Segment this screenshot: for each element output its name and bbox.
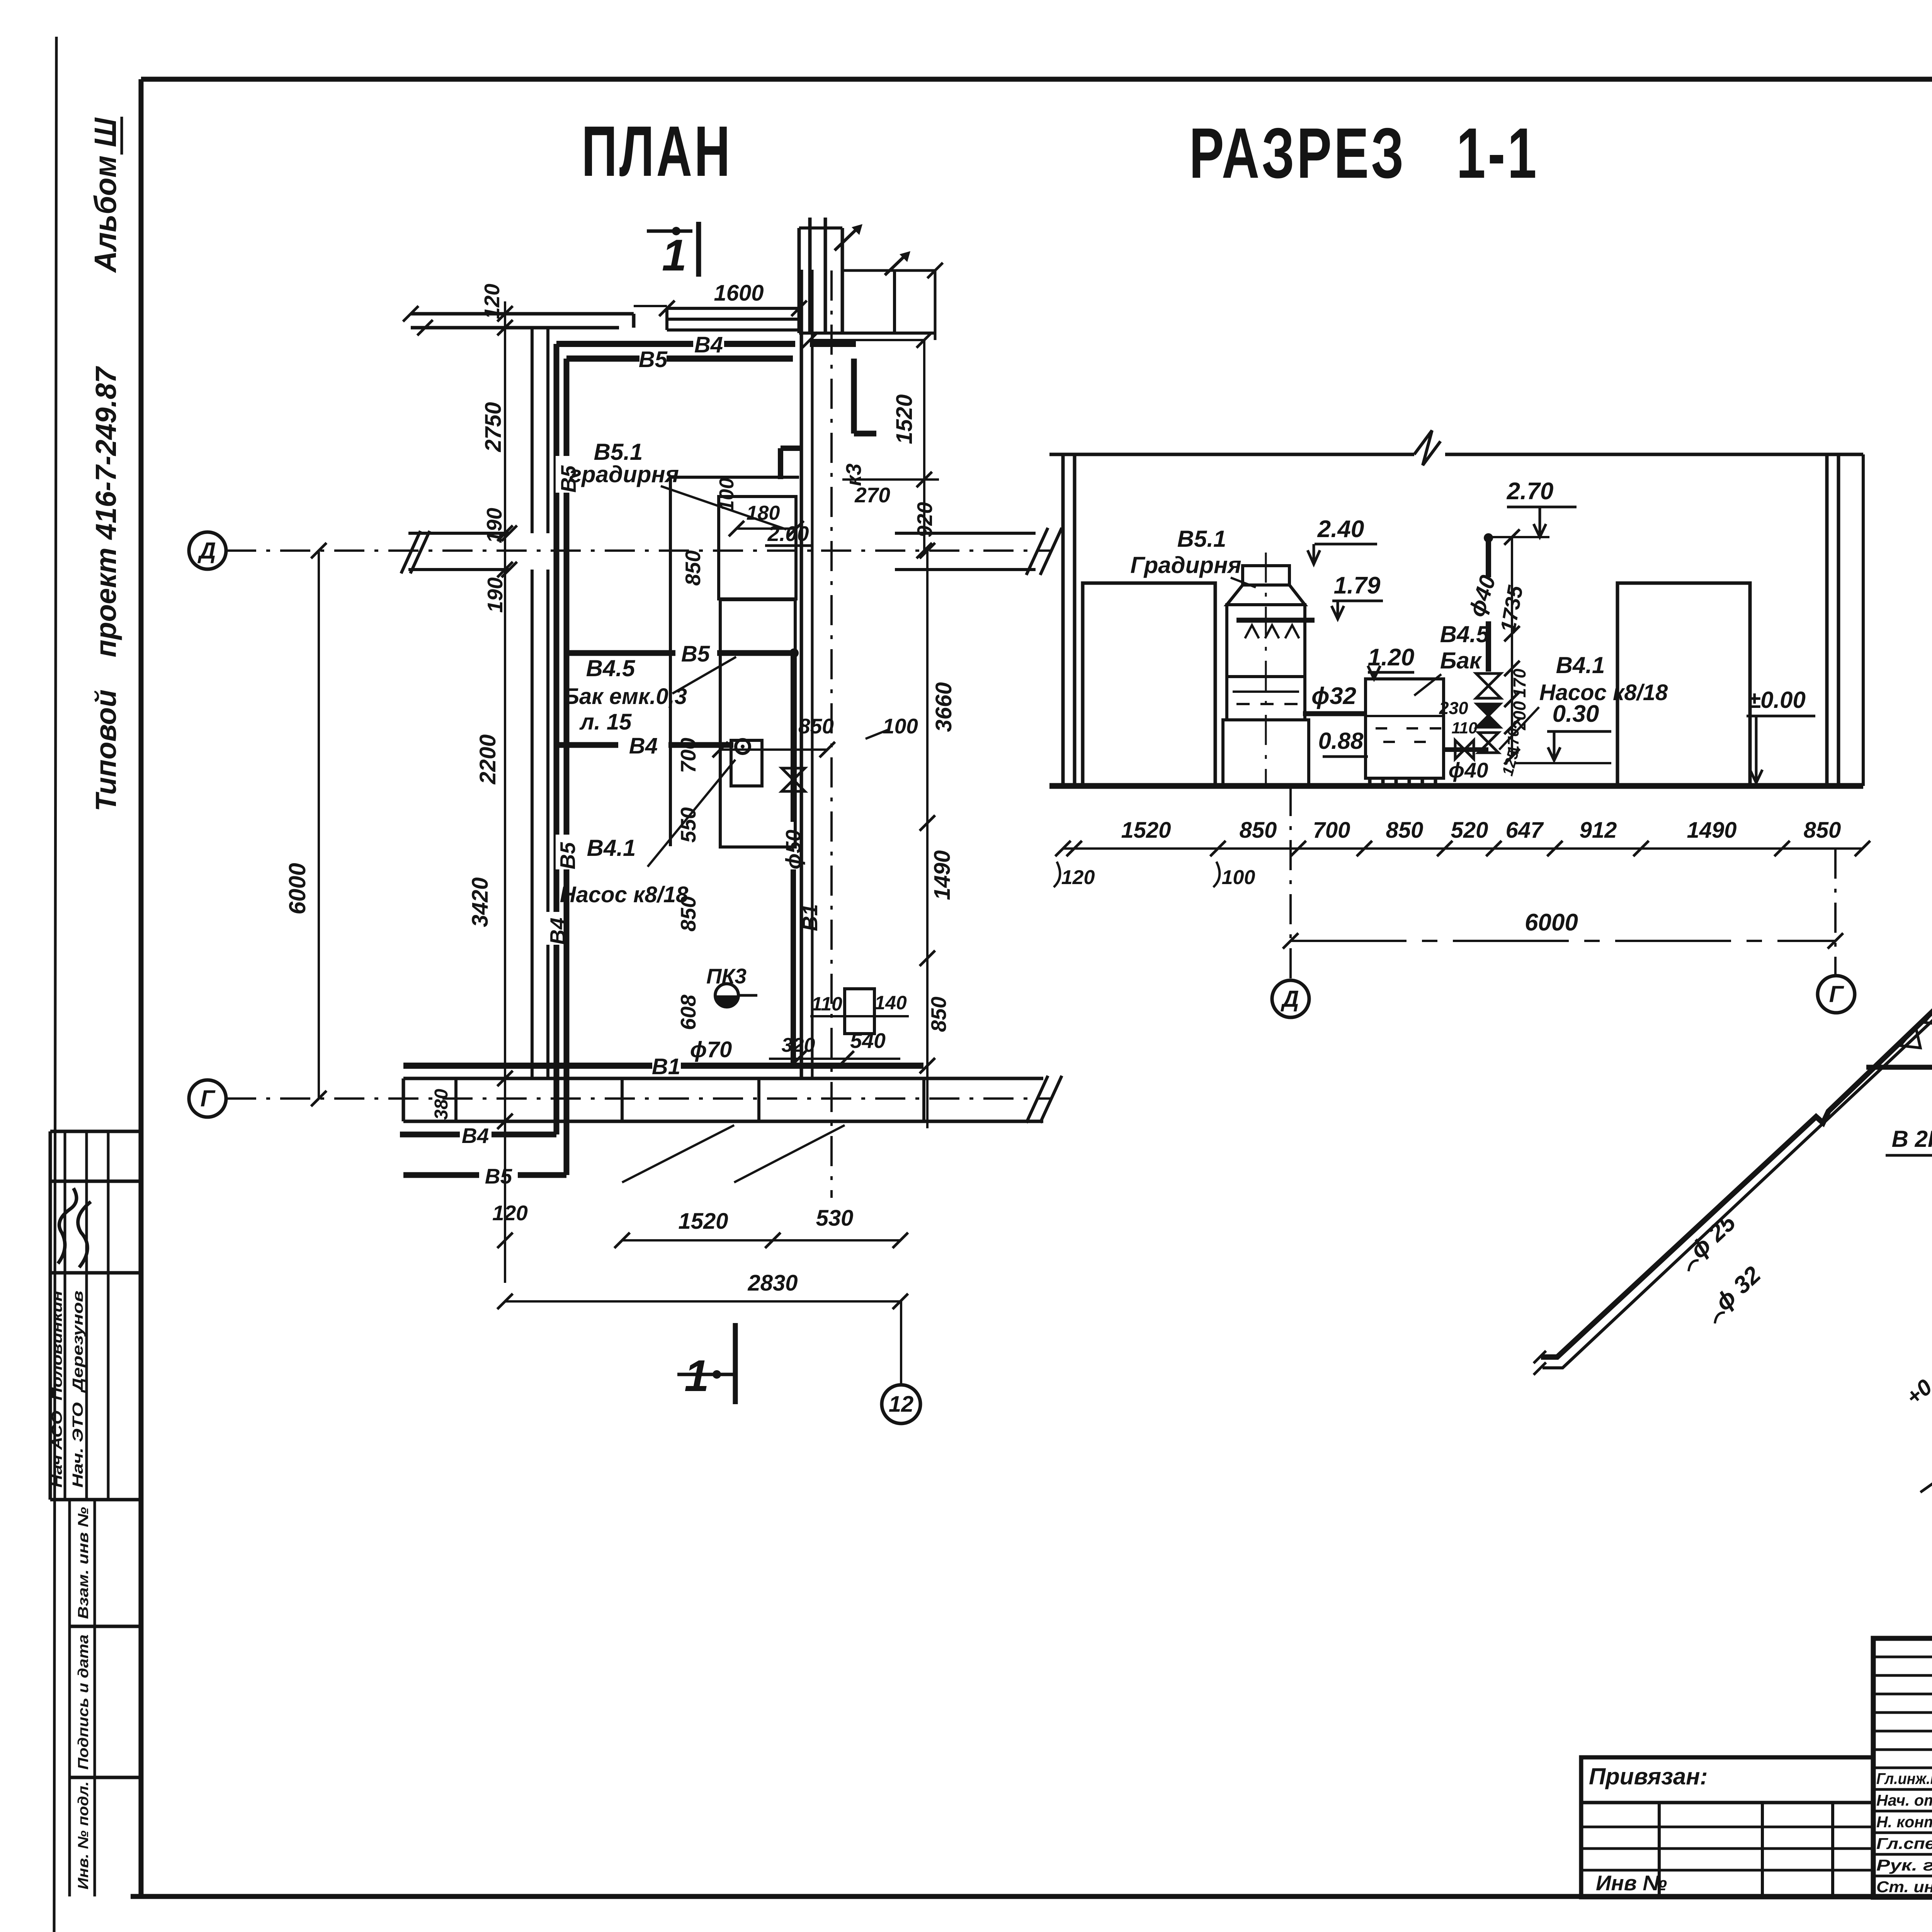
axis marker Г (section) xyxy=(1818,976,1855,1013)
column block top-right (plan) xyxy=(798,228,801,333)
svg-text:270: 270 xyxy=(854,483,890,507)
section left wall xyxy=(1061,454,1065,786)
pipe В5 mid branch (plan) xyxy=(566,650,675,656)
axis Г stem (section) xyxy=(1834,849,1837,976)
dimension line 2830 xyxy=(505,1300,900,1303)
bottom wall band (plan) xyxy=(403,1077,1043,1080)
svg-text:Инв. № подл.: Инв. № подл. xyxy=(75,1781,92,1889)
section floor line xyxy=(1049,783,1863,789)
svg-text:В4: В4 xyxy=(462,1124,489,1148)
label В5 on riser upper (rotated) xyxy=(556,456,578,493)
svg-text:В4.1: В4.1 xyxy=(587,835,636,861)
pipe В4 top horizontal (plan) xyxy=(556,341,693,347)
svg-text:Д: Д xyxy=(1280,986,1299,1012)
title block outer frame xyxy=(1873,1638,1932,1897)
svg-text:170: 170 xyxy=(1510,668,1529,697)
svg-text:0.88: 0.88 xyxy=(1318,728,1364,754)
column area extra lines (plan top right) xyxy=(893,270,896,333)
svg-text:230: 230 xyxy=(1439,698,1468,718)
machine room outline (plan) xyxy=(669,477,672,846)
svg-text:В 2КЗ: В 2КЗ xyxy=(1892,1126,1932,1152)
section cut mark 1 (top) xyxy=(696,222,701,277)
svg-text:190: 190 xyxy=(482,508,506,543)
svg-text:700: 700 xyxy=(676,738,700,773)
hydrant ПК3 (plan) xyxy=(715,984,738,1007)
svg-text:110: 110 xyxy=(811,993,842,1015)
dimension line 1735 xyxy=(1511,537,1513,757)
svg-text:Ст. инж.: Ст. инж. xyxy=(1876,1878,1932,1896)
svg-text:2.40: 2.40 xyxy=(1317,516,1364,543)
svg-text:В4: В4 xyxy=(629,733,658,759)
pipe В5 top horizontal (plan) xyxy=(566,355,639,362)
svg-text:В5: В5 xyxy=(639,347,668,372)
svg-text:В1: В1 xyxy=(652,1054,680,1079)
svg-text:608: 608 xyxy=(676,995,700,1030)
svg-text:100: 100 xyxy=(1222,866,1255,889)
svg-text:Г: Г xyxy=(1829,981,1845,1007)
section ceiling line xyxy=(1049,453,1414,456)
svg-text:Типовой проект 416-7-249.87: Типовой проект 416-7-249.87 xyxy=(90,366,122,811)
svg-text:3420: 3420 xyxy=(468,877,493,927)
svg-text:2200: 2200 xyxy=(475,734,500,784)
svg-text:В5: В5 xyxy=(556,842,580,869)
svg-text:ПЛАН: ПЛАН xyxy=(582,112,732,191)
svg-text:140: 140 xyxy=(874,992,907,1014)
pipe K3 (plan) xyxy=(851,359,857,434)
main frame top border xyxy=(141,77,1932,82)
section cut mark 1 (bottom) xyxy=(733,1323,738,1404)
left table signatures scrawl xyxy=(58,1188,91,1267)
svg-text:Градирня: Градирня xyxy=(1130,552,1241,578)
svg-text:320: 320 xyxy=(782,1034,815,1056)
svg-text:1520: 1520 xyxy=(892,394,917,444)
svg-text:2830: 2830 xyxy=(747,1270,798,1296)
svg-text:850: 850 xyxy=(798,714,834,738)
svg-text:Бак емк.0,3: Бак емк.0,3 xyxy=(563,684,687,709)
plan outer wall left (double) xyxy=(531,328,534,533)
svg-text:550: 550 xyxy=(676,807,700,843)
svg-text:Рук. гр.: Рук. гр. xyxy=(1876,1856,1932,1874)
axis Г line xyxy=(226,1097,1051,1100)
svg-text:647: 647 xyxy=(1506,818,1544,843)
svg-text:Привязан:: Привязан: xyxy=(1589,1764,1708,1789)
svg-text:Гл.инж.пр.: Гл.инж.пр. xyxy=(1876,1770,1932,1787)
pipe φ50 riser (plan) xyxy=(791,653,796,822)
pipe φ40 riser (section) xyxy=(1486,536,1491,577)
right building block (section) xyxy=(1617,583,1750,786)
column pier rect (plan bottom) xyxy=(845,989,874,1034)
tank В4.5 (section) xyxy=(1366,679,1444,778)
svg-text:Инв №: Инв № xyxy=(1596,1871,1667,1895)
svg-text:2.00: 2.00 xyxy=(767,522,809,546)
pump symbol (plan) xyxy=(736,740,750,753)
svg-text:Нач. отд.: Нач. отд. xyxy=(1876,1791,1932,1809)
svg-text:Бак: Бак xyxy=(1440,648,1482,673)
svg-text:В5.1: В5.1 xyxy=(1177,526,1226,552)
svg-text:градирня: градирня xyxy=(569,461,679,487)
svg-text:1600: 1600 xyxy=(714,281,764,306)
svg-text:2750: 2750 xyxy=(481,402,506,452)
svg-text:Нач АСО Половинкин: Нач АСО Половинкин xyxy=(49,1291,65,1488)
svg-text:В4.5: В4.5 xyxy=(1440,621,1490,647)
axis Д wall band left xyxy=(408,532,509,535)
svg-text:В5: В5 xyxy=(485,1164,513,1188)
main frame bottom border xyxy=(131,1894,1932,1899)
axis Д line xyxy=(226,549,1051,552)
svg-text:190: 190 xyxy=(483,577,507,613)
svg-text:850: 850 xyxy=(1386,818,1423,843)
svg-text:380: 380 xyxy=(431,1089,452,1120)
cooling tower square (plan) xyxy=(719,497,796,599)
pipe φ32 (section) xyxy=(1303,711,1366,716)
section right wall xyxy=(1825,454,1829,786)
svg-text:Альбом Ш: Альбом Ш xyxy=(88,117,122,273)
svg-text:12: 12 xyxy=(889,1392,914,1417)
svg-text:1: 1 xyxy=(684,1351,709,1401)
svg-text:Нач. ЭТО Дерезунов: Нач. ЭТО Дерезунов xyxy=(70,1291,86,1488)
ground line (scheme) xyxy=(1920,1161,1932,1492)
svg-text:В4.5: В4.5 xyxy=(586,655,636,681)
pipe В5 vertical riser (plan) xyxy=(564,359,570,1175)
svg-text:6000: 6000 xyxy=(284,863,310,914)
svg-text:В4.1: В4.1 xyxy=(1556,652,1605,678)
svg-text:700: 700 xyxy=(1313,818,1350,843)
left building block (section) xyxy=(1083,583,1215,786)
svg-text:1: 1 xyxy=(662,231,687,280)
svg-text:912: 912 xyxy=(1580,818,1617,843)
svg-text:6000: 6000 xyxy=(1525,909,1578,936)
svg-text:ϕ50: ϕ50 xyxy=(781,830,805,869)
svg-text:1.79: 1.79 xyxy=(1334,572,1381,599)
axis marker 12 xyxy=(882,1385,920,1423)
svg-text:Гл.спец.: Гл.спец. xyxy=(1876,1835,1932,1852)
svg-text:Н. контр.: Н. контр. xyxy=(1876,1813,1932,1831)
wall top-left (plan) xyxy=(411,312,634,316)
svg-text:В5.1: В5.1 xyxy=(594,439,643,465)
scheme main pipe ф32/ф25/ф20 (double line) xyxy=(1541,791,1932,1357)
svg-text:В5: В5 xyxy=(681,641,710,667)
pipe В4 mid branch to pump (plan) xyxy=(556,742,618,748)
dimension 6000 vertical line (plan) xyxy=(318,551,320,1099)
axis Д wall band right xyxy=(895,532,1036,535)
axis Д arrowheads right xyxy=(1026,528,1048,575)
tank rectangle (plan) xyxy=(720,600,795,847)
svg-text:В4: В4 xyxy=(694,332,723,357)
label В4 on riser (rotated) xyxy=(546,912,567,945)
svg-text:Насос к8/18: Насос к8/18 xyxy=(560,882,689,907)
svg-text:850: 850 xyxy=(1804,818,1841,843)
svg-text:л. 15: л. 15 xyxy=(579,709,632,735)
pump unit rectangle (plan) xyxy=(731,740,762,786)
valves on riser (section) xyxy=(1476,673,1501,686)
dimension line 920 xyxy=(842,478,939,481)
left paper edge line xyxy=(54,37,56,1932)
title block signature rows xyxy=(1873,1788,1932,1791)
title block revision rows xyxy=(1873,1656,1932,1658)
svg-text:РАЗРЕЗ 1-1: РАЗРЕЗ 1-1 xyxy=(1189,114,1539,193)
svg-text:530: 530 xyxy=(816,1206,854,1231)
left attribute table grid xyxy=(49,1131,52,1500)
privyazan table xyxy=(1581,1757,1873,1897)
main frame left border xyxy=(139,79,144,1896)
heavy elbow into tower xyxy=(778,448,783,479)
svg-text:±0.00: ±0.00 xyxy=(1748,687,1806,713)
svg-text:1520: 1520 xyxy=(678,1209,728,1234)
left dimension chain line xyxy=(504,301,506,1283)
pipe В4 bottom exit (plan) xyxy=(400,1132,460,1138)
axis 12 stem xyxy=(900,1301,902,1385)
svg-text:120: 120 xyxy=(492,1201,528,1225)
svg-text:Взам. инв №: Взам. инв № xyxy=(75,1507,92,1619)
svg-text:1490: 1490 xyxy=(1687,818,1736,843)
axis marker Д (section) xyxy=(1272,980,1309,1017)
dimension row (section) xyxy=(1063,847,1863,850)
riser elbow to tank (section) xyxy=(1444,747,1488,752)
pipe ф40 from B1 (scheme) xyxy=(1866,1065,1932,1070)
svg-text:520: 520 xyxy=(1451,818,1488,843)
tick at riser top xyxy=(1488,536,1549,538)
svg-text:2.70: 2.70 xyxy=(1507,478,1554,505)
svg-text:Г: Г xyxy=(201,1085,216,1111)
leader V under bottom wall xyxy=(622,1125,734,1182)
axis Г arrowheads right xyxy=(1026,1076,1048,1123)
svg-text:110: 110 xyxy=(1452,719,1478,737)
axis marker Г (plan) xyxy=(189,1080,226,1117)
pipe В1 φ70 bottom (plan) xyxy=(403,1063,652,1069)
svg-text:3660: 3660 xyxy=(931,682,956,732)
dimension chain right of plan xyxy=(926,551,929,1128)
svg-text:850: 850 xyxy=(927,997,951,1032)
underline of album number xyxy=(121,117,123,155)
svg-text:120: 120 xyxy=(480,284,504,319)
beam rectangle top (plan) xyxy=(667,307,799,310)
dimension line 1520/530 (bottom) xyxy=(622,1239,900,1242)
svg-text:120: 120 xyxy=(1061,866,1095,889)
pipe В4 vertical riser (plan) xyxy=(554,344,560,1134)
svg-text:Д: Д xyxy=(197,537,216,563)
plan wall right double xyxy=(800,270,803,1078)
svg-text:1.20: 1.20 xyxy=(1368,644,1415,671)
svg-text:0.30: 0.30 xyxy=(1553,701,1599,727)
valve on riser В1 (plan) xyxy=(782,768,805,780)
pipe В5 bottom exit (plan) xyxy=(403,1172,479,1178)
dimension line 1520 right xyxy=(810,339,924,341)
svg-text:920: 920 xyxy=(913,502,937,537)
dimension 6000 (section) xyxy=(1291,940,1835,942)
svg-text:ϕ32: ϕ32 xyxy=(1311,683,1356,709)
axis 12 dash-dot vertical xyxy=(830,270,833,1198)
axis Д stem (section) xyxy=(1289,786,1292,980)
svg-text:ϕ70: ϕ70 xyxy=(690,1037,732,1062)
svg-text:1520: 1520 xyxy=(1121,818,1171,843)
svg-text:100: 100 xyxy=(883,714,918,738)
svg-text:Подпись и дата: Подпись и дата xyxy=(75,1634,92,1770)
axis marker Д (plan) xyxy=(189,532,226,569)
svg-text:850: 850 xyxy=(681,550,705,586)
svg-text:1490: 1490 xyxy=(930,850,955,900)
svg-text:В1: В1 xyxy=(798,904,822,931)
svg-text:ПК3: ПК3 xyxy=(706,964,747,988)
ceiling break mark xyxy=(1414,430,1440,465)
label В5 on riser lower (rotated) xyxy=(556,835,578,869)
cooling tower В5.1 (section) xyxy=(1243,566,1289,585)
svg-text:ϕ40: ϕ40 xyxy=(1449,758,1488,782)
svg-text:200: 200 xyxy=(1510,701,1529,730)
svg-text:850: 850 xyxy=(1240,818,1277,843)
